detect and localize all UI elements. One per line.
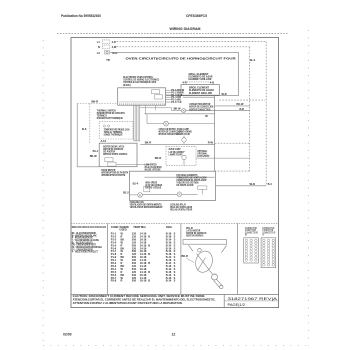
svg-text:LAMPE FOUR*: LAMPE FOUR* <box>169 152 183 156</box>
svg-text:OVEN CIRCUIT(/CIRCUITO DE HORN: OVEN CIRCUIT(/CIRCUITO DE HORNO(/CIRCUIT… <box>126 57 237 61</box>
svg-text:SONDE THERMIQUE: SONDE THERMIQUE <box>104 133 123 137</box>
svg-text:P1-6 Y-R: P1-6 Y-R <box>171 100 181 104</box>
svg-text:S: S <box>174 279 176 283</box>
pin row EOC bottom <box>120 103 165 105</box>
latch switch NO <box>105 158 113 162</box>
svg-text:N: N <box>98 45 100 49</box>
svg-text:TB: TB <box>106 58 110 62</box>
oven lamp DS2 <box>182 155 186 159</box>
wire pin to broil <box>171 89 181 91</box>
svg-text:B: B <box>245 233 247 237</box>
terminal block fuse N <box>102 45 110 48</box>
wire pin bus right <box>183 96 215 98</box>
svg-text:ELEMENT GRILLOIR: ELEMENT GRILLOIR <box>189 77 212 81</box>
wire table header <box>111 225 172 231</box>
dashed rule under title <box>57 32 288 34</box>
svg-text:P2-8: P2-8 <box>111 279 117 283</box>
relay contact K1 <box>152 90 160 94</box>
svg-text:VENTILATEUR REFROIDISSEMENT: VENTILATEUR REFROIDISSEMENT <box>130 205 163 209</box>
svg-text:B: B <box>148 270 150 274</box>
wire bundle elbow <box>134 140 141 142</box>
svg-text:BK-W: BK-W <box>174 107 182 111</box>
wire into latch box <box>77 166 99 168</box>
svg-text:MOTEUR CONVECTION: MOTEUR CONVECTION <box>159 132 179 136</box>
wire L1 vertical drop <box>265 42 267 186</box>
wiring code legend list <box>72 231 102 254</box>
svg-text:B1-4: B1-4 <box>133 182 139 186</box>
svg-text:Publication No 5995532920: Publication No 5995532920 <box>61 14 101 18</box>
connector A <box>261 226 276 268</box>
convection motor M1 <box>146 114 148 124</box>
svg-text:AWG: AWG <box>166 225 172 229</box>
svg-text:CFES366FC5: CFES366FC5 <box>186 14 207 18</box>
svg-text:RELAIS VENTILATEUR: RELAIS VENTILATEUR <box>170 208 192 212</box>
wire harness horizontal <box>140 107 172 109</box>
svg-text:B1-1: B1-1 <box>93 149 99 153</box>
wire EOC to thermal switch <box>77 103 118 105</box>
svg-text:W-R: W-R <box>222 92 227 96</box>
grill element wire <box>187 81 210 83</box>
svg-text:12: 12 <box>172 332 176 336</box>
latch cam circle <box>212 274 218 280</box>
wire neutral link dashed <box>219 99 265 101</box>
svg-text:BK-W: BK-W <box>237 102 245 106</box>
fan switch box <box>144 186 150 192</box>
wire L1 horizontal run <box>117 41 267 43</box>
latch assembly body <box>193 249 215 274</box>
wire lamp return <box>196 157 250 159</box>
svg-text:R-W: R-W <box>208 140 214 144</box>
divider legend/table <box>107 223 109 294</box>
svg-text:A: A <box>262 233 264 237</box>
svg-text:B: B <box>148 252 150 256</box>
svg-text:318271967 REV|A: 318271967 REV|A <box>228 297 278 301</box>
svg-text:W-R: W-R <box>112 51 117 55</box>
cooling fan box <box>129 171 215 200</box>
svg-text:4-R: 4-R <box>182 80 186 84</box>
wire branch vertical <box>89 104 91 144</box>
svg-text:B: B <box>148 243 150 247</box>
latch bolt tip <box>220 285 223 288</box>
svg-text:R: R <box>121 279 123 283</box>
fan motor M3 <box>138 193 143 198</box>
latch bracket bar <box>183 240 227 245</box>
svg-text:B-14: B-14 <box>166 279 172 283</box>
svg-text:BK-R: BK-R <box>145 140 152 144</box>
temperature probe jack box <box>99 122 133 139</box>
terminal block lug L2 <box>104 51 110 55</box>
bottom fold dotted line <box>43 345 309 347</box>
notice strip top border <box>71 293 279 295</box>
svg-text:V - VIOLET/VIOLETA/VIOLET: V - VIOLET/VIOLETA/VIOLET <box>72 250 98 254</box>
wire conv top rail <box>144 113 214 115</box>
probe jack pins <box>103 125 105 127</box>
svg-text:W-R: W-R <box>250 182 255 186</box>
part number box <box>223 294 225 307</box>
svg-text:A-12: A-12 <box>101 139 107 143</box>
connector B <box>244 226 259 263</box>
wire L2 horizontal run <box>110 51 239 53</box>
svg-text:INTERRUPTEUR PORTE: INTERRUPTEUR PORTE <box>101 173 125 177</box>
svg-text:USED: USED <box>120 227 127 231</box>
wire N horizontal run <box>117 46 250 48</box>
broil element box <box>181 85 219 96</box>
svg-text:BK-R: BK-R <box>92 100 99 104</box>
svg-text:200: 200 <box>132 279 137 283</box>
wire mid rail <box>144 176 214 178</box>
svg-text:4-B: 4-B <box>210 80 214 84</box>
svg-text:DISJONCTEUR THERMIQUE: DISJONCTEUR THERMIQUE <box>97 116 123 120</box>
svg-text:B-4: B-4 <box>250 58 255 62</box>
svg-text:B: B <box>148 279 150 283</box>
latch switch NC <box>108 162 116 166</box>
wire L2 vertical drop <box>237 52 239 95</box>
svg-text:WIRING DIAGRAM: WIRING DIAGRAM <box>170 27 201 31</box>
wire lamp feed <box>140 143 214 145</box>
wire L2 return to relays <box>166 95 238 97</box>
optional lamp dashed box <box>166 146 196 165</box>
wire right bus vertical <box>214 96 216 172</box>
latch pivot circle <box>198 248 202 252</box>
svg-text:4-R: 4-R <box>112 40 116 44</box>
wire left vertical bus <box>76 104 78 167</box>
wire conv M2 to N drop <box>186 110 250 112</box>
left fold dotted line <box>42 40 44 346</box>
pin labels EOC bottom <box>120 102 164 103</box>
svg-text:BK-W: BK-W <box>90 154 98 158</box>
svg-text:PAGE|1/2: PAGE|1/2 <box>228 303 246 307</box>
svg-text:ATTENTION:COUPEZ L'ALIMENTATIO: ATTENTION:COUPEZ L'ALIMENTATION AVANT D'… <box>73 301 183 305</box>
oven lamp DS1 <box>183 136 185 138</box>
wire N branch upper <box>215 142 250 144</box>
svg-text:CONN: CONN <box>111 225 119 229</box>
svg-text:GA: GA <box>142 225 146 229</box>
svg-text:4-W: 4-W <box>112 45 117 49</box>
svg-text:16-18: 16-18 <box>140 279 147 283</box>
svg-text:BK-B: BK-B <box>155 156 162 160</box>
svg-text:CONNECTEUR: CONNECTEUR <box>245 230 258 234</box>
svg-text:B-6: B-6 <box>82 127 87 131</box>
svg-text:02/09: 02/09 <box>63 332 72 336</box>
relay contact K2 <box>155 95 163 99</box>
fan motor M4 <box>177 192 182 197</box>
svg-text:CONNECTEUR: CONNECTEUR <box>262 230 275 234</box>
fan relay box <box>198 186 207 189</box>
wire N branch lower <box>215 170 250 172</box>
latch bracket ends <box>189 245 194 251</box>
svg-text:(EOC): (EOC) <box>123 83 131 87</box>
svg-text:MOTEUR VERROU: MOTEUR VERROU <box>186 233 203 237</box>
wire gauge table rows <box>111 232 176 283</box>
svg-text:ELEMENT GRILLOIR: ELEMENT GRILLOIR <box>189 91 212 95</box>
convection motor M2 <box>172 110 182 112</box>
svg-text:B: B <box>148 261 150 265</box>
svg-text:LAMPE FOUR: LAMPE FOUR <box>177 132 190 136</box>
wire latch to fan area <box>116 163 150 165</box>
svg-text:FACULTATIF: FACULTATIF <box>197 154 209 158</box>
svg-text:BASSE VITESSE: BASSE VITESSE <box>145 167 161 171</box>
wire bundle from EOC <box>134 105 140 141</box>
svg-text:MOTEUR PORTE VERROU: MOTEUR PORTE VERROU <box>103 152 127 156</box>
legend divider top <box>71 222 279 224</box>
svg-text:MOTEUR CONVECTION: MOTEUR CONVECTION <box>189 107 210 111</box>
svg-text:B1-2: B1-2 <box>123 191 129 195</box>
fan internal wires <box>129 194 137 196</box>
diagram border frame <box>71 38 279 308</box>
motor door latch box <box>99 143 137 167</box>
wire L1 to cooling fan <box>216 185 267 187</box>
svg-text:DE VENTILACION: DE VENTILACION <box>176 183 193 187</box>
wire broil to neutral <box>215 105 250 107</box>
right fold dotted line <box>308 30 310 346</box>
latch linkage lines <box>197 254 213 274</box>
pin stubs EOC right <box>166 88 185 104</box>
op-amp EOC control board box <box>118 88 166 105</box>
svg-text:B-4: B-4 <box>268 182 273 186</box>
svg-text:BK-R: BK-R <box>182 254 189 258</box>
svg-text:WIRING CODE CODIGO DE COLOR CO: WIRING CODE CODIGO DE COLOR CODE COULEUR <box>72 225 106 229</box>
svg-text:B: B <box>148 234 150 238</box>
divider table/drawing <box>180 223 182 294</box>
wire N vertical drop <box>249 47 251 171</box>
wire stub conv <box>144 105 146 114</box>
divider drawing/connectors <box>237 223 239 294</box>
terminal block fuse L1 <box>102 40 110 43</box>
